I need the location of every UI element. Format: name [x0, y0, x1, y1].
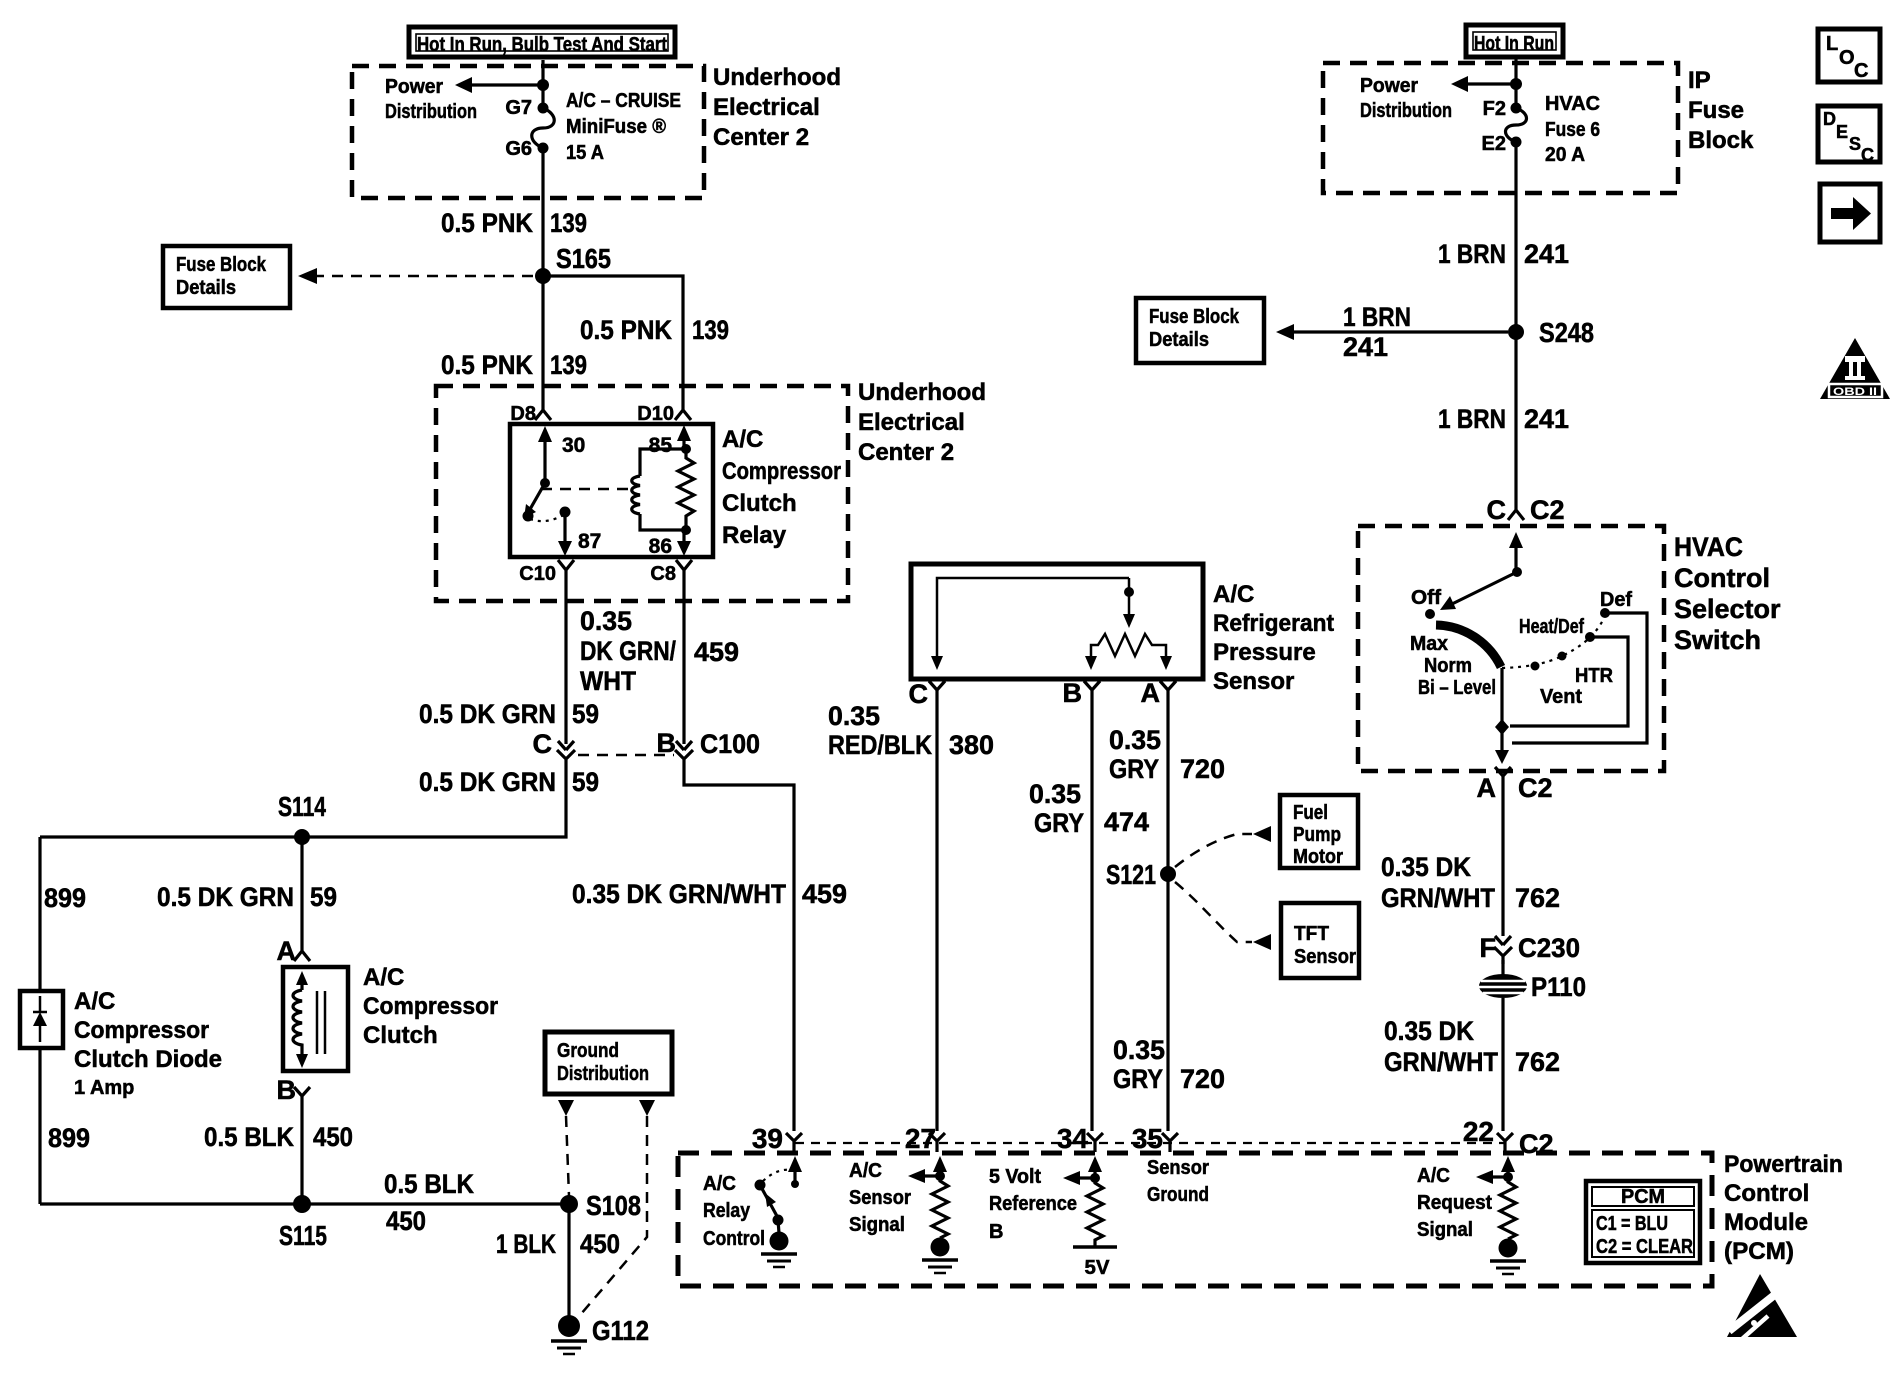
connector F of C230	[1480, 933, 1581, 964]
svg-text:Distribution: Distribution	[385, 101, 477, 123]
svg-text:C2: C2	[1518, 773, 1553, 803]
svg-text:Signal: Signal	[849, 1214, 905, 1236]
forward arrow icon box	[1820, 184, 1880, 242]
svg-text:Center 2: Center 2	[713, 124, 809, 151]
Ground Distribution box	[545, 1032, 672, 1094]
svg-text:Compressor: Compressor	[722, 458, 841, 485]
dashed reference arrow S165 to Fuse Block Details	[315, 275, 533, 278]
svg-text:P110: P110	[1531, 972, 1586, 1002]
svg-text:C10: C10	[519, 563, 556, 585]
svg-text:0.5 DK GRN: 0.5 DK GRN	[419, 699, 556, 729]
svg-text:Ground: Ground	[1147, 1184, 1209, 1206]
svg-text:GRY: GRY	[1034, 808, 1084, 838]
svg-text:B: B	[657, 728, 677, 758]
PCM connector legend box	[1586, 1181, 1700, 1263]
IP Fuse Block dashed box	[1323, 63, 1678, 193]
svg-text:85: 85	[649, 434, 673, 457]
svg-text:A/C: A/C	[363, 964, 404, 991]
svg-text:Sensor: Sensor	[1294, 946, 1356, 968]
value label 1 BLK 450	[496, 1229, 620, 1259]
svg-text:(PCM): (PCM)	[1724, 1238, 1794, 1265]
fuse: HVAC Fuse 6 20A, terminals F2/E2	[1482, 93, 1600, 166]
value label 0.5 DK GRN 59 (below C100)	[419, 767, 599, 797]
value label 0.35 DK GRN/WHT 762 (upper)	[1381, 852, 1560, 913]
svg-text:Fuse Block: Fuse Block	[176, 254, 267, 276]
svg-text:C2 = CLEAR: C2 = CLEAR	[1596, 1236, 1693, 1258]
svg-text:Ground: Ground	[557, 1040, 619, 1062]
svg-text:A/C: A/C	[849, 1160, 882, 1182]
svg-text:0.35: 0.35	[1029, 779, 1081, 809]
svg-text:1 BRN: 1 BRN	[1343, 302, 1411, 332]
svg-text:Fuel: Fuel	[1293, 802, 1328, 824]
svg-text:G112: G112	[592, 1315, 649, 1346]
svg-text:O: O	[1839, 47, 1855, 69]
svg-text:Clutch: Clutch	[722, 490, 797, 517]
switch output wire with junctions	[1495, 668, 1509, 764]
A/C relay control switch	[755, 1170, 792, 1233]
svg-text:RED/BLK: RED/BLK	[828, 730, 932, 760]
svg-text:Heat/Def: Heat/Def	[1519, 616, 1584, 638]
relay pin 87 arm	[558, 512, 601, 556]
pin 39 internal arrow	[788, 1156, 802, 1188]
svg-text:Hot In Run, Bulb Test And Star: Hot In Run, Bulb Test And Start	[417, 34, 667, 56]
svg-text:450: 450	[313, 1122, 353, 1152]
PCM dashed box	[678, 1153, 1712, 1286]
HTR position dot	[1558, 652, 1567, 661]
svg-text:474: 474	[1104, 807, 1149, 837]
connector pin C of sensor	[909, 679, 946, 709]
svg-text:A/C: A/C	[1213, 581, 1254, 608]
svg-text:450: 450	[386, 1206, 426, 1236]
label 5 Volt Reference B	[989, 1166, 1077, 1243]
wire: C8 down to C100 pin B	[682, 582, 685, 744]
value label 0.35 DK GRN/WHT 459	[580, 606, 739, 696]
Vent position dot	[1531, 662, 1540, 671]
pin 27 internal arrows	[908, 1156, 947, 1183]
wire: sensor C to PCM pin 27	[935, 698, 938, 1131]
connector C10	[519, 560, 574, 585]
connector D10	[637, 403, 691, 425]
svg-text:HTR: HTR	[1575, 665, 1614, 687]
svg-text:Underhood: Underhood	[858, 379, 986, 406]
dashed wire to G112	[581, 1116, 647, 1314]
value label 0.5 BLK 450 (run)	[384, 1169, 474, 1236]
svg-text:0.5 BLK: 0.5 BLK	[204, 1122, 294, 1152]
connector C100 pin B	[657, 728, 761, 767]
svg-text:Control: Control	[1674, 563, 1770, 593]
wire: hot feed into fuse	[541, 60, 544, 108]
svg-text:Reference: Reference	[989, 1193, 1077, 1215]
node S248	[1508, 324, 1524, 340]
svg-text:22: 22	[1463, 1116, 1494, 1147]
wire: sensor A to PCM pin 35	[1166, 698, 1169, 1131]
label Underhood Electrical Center 2	[713, 64, 841, 151]
label A/C Refrigerant Pressure Sensor	[1213, 581, 1334, 695]
svg-text:Fuse Block: Fuse Block	[1149, 306, 1240, 328]
sensor resistor element	[1085, 634, 1172, 670]
svg-text:Off: Off	[1411, 587, 1441, 609]
ground G112	[551, 1315, 649, 1354]
svg-text:C2: C2	[1530, 495, 1565, 525]
svg-text:C230: C230	[1518, 933, 1580, 963]
resistor to 5V at pin 34	[1087, 1178, 1103, 1247]
value label 0.5 PNK 139	[441, 208, 587, 238]
svg-text:A/C: A/C	[1417, 1165, 1450, 1187]
svg-text:D8: D8	[510, 403, 536, 425]
svg-text:Electrical: Electrical	[858, 409, 965, 436]
svg-text:A: A	[277, 936, 297, 966]
svg-text:241: 241	[1343, 332, 1388, 362]
diode symbol	[33, 996, 47, 1042]
label Powertrain Control Module (PCM)	[1724, 1151, 1843, 1265]
value label 0.35 GRY 720 (pin A lower)	[1113, 1035, 1225, 1094]
svg-text:C: C	[909, 679, 929, 709]
node S115	[293, 1195, 311, 1213]
svg-text:G7: G7	[505, 97, 532, 119]
relay pin 30 arm	[538, 426, 585, 483]
svg-text:S165: S165	[556, 243, 611, 274]
svg-text:0.5 DK GRN: 0.5 DK GRN	[157, 882, 294, 912]
ground at pin 22	[1490, 1239, 1526, 1275]
wire: sensor B to PCM pin 34	[1090, 698, 1093, 1131]
svg-text:459: 459	[694, 637, 739, 667]
svg-text:OBD II: OBD II	[1833, 386, 1877, 398]
wire: hot feed into HVAC fuse	[1514, 58, 1517, 108]
value label 0.35 DK GRN/WHT 762 (lower)	[1384, 1016, 1560, 1077]
svg-text:459: 459	[802, 879, 847, 909]
pull resistor at pin 27	[932, 1176, 948, 1238]
relay coil with parallel resistor	[632, 444, 694, 535]
svg-text:S114: S114	[278, 791, 326, 822]
svg-text:Distribution: Distribution	[1360, 100, 1452, 122]
connector D8	[510, 403, 551, 425]
pin 22 internal arrows	[1476, 1156, 1515, 1184]
svg-text:720: 720	[1180, 754, 1225, 784]
relay switch arm	[523, 478, 571, 522]
sensor wiper arrow	[1123, 578, 1135, 628]
svg-text:241: 241	[1524, 404, 1569, 434]
label Underhood Electrical Center 2	[858, 379, 986, 466]
svg-text:Relay: Relay	[703, 1200, 751, 1222]
svg-text:C100: C100	[700, 729, 760, 759]
svg-text:L: L	[1826, 33, 1838, 55]
svg-text:0.35 DK: 0.35 DK	[1384, 1016, 1474, 1046]
node: power distribution tap	[537, 79, 549, 91]
switch feed arrow	[1509, 532, 1523, 577]
value label 0.5 DK GRN 59	[157, 882, 337, 912]
svg-text:139: 139	[692, 315, 729, 345]
svg-text:Compressor: Compressor	[363, 993, 498, 1020]
svg-text:B: B	[277, 1075, 297, 1105]
wire: S108 down to G112	[567, 1204, 570, 1316]
connector pin 27	[905, 1123, 945, 1154]
value label 1 BRN 241	[1438, 404, 1569, 434]
OBD II triangle symbol	[1820, 338, 1890, 399]
svg-text:59: 59	[310, 882, 337, 912]
svg-text:Fuse 6: Fuse 6	[1545, 119, 1600, 141]
sensor internal supply line	[937, 578, 1129, 660]
grommet P110	[1479, 960, 1586, 1002]
svg-text:59: 59	[572, 699, 599, 729]
svg-text:A: A	[1477, 773, 1497, 803]
svg-text:Power: Power	[385, 76, 443, 98]
wire: S248 down to HVAC selector C2 pin C	[1514, 332, 1517, 506]
svg-text:0.5 PNK: 0.5 PNK	[441, 208, 533, 238]
svg-text:D10: D10	[637, 403, 674, 425]
svg-text:0.35: 0.35	[580, 606, 632, 636]
connector C8	[650, 560, 692, 585]
svg-text:Details: Details	[176, 277, 236, 299]
svg-text:A/C: A/C	[722, 426, 763, 453]
ground distribution arrow left	[558, 1100, 574, 1116]
svg-text:1 BRN: 1 BRN	[1438, 239, 1506, 269]
label IP Fuse Block	[1688, 67, 1754, 154]
svg-text:Sensor: Sensor	[1147, 1157, 1209, 1179]
svg-text:Norm: Norm	[1424, 655, 1472, 677]
svg-text:C2: C2	[1519, 1129, 1554, 1159]
svg-text:C: C	[1854, 60, 1868, 82]
svg-text:S: S	[1849, 134, 1861, 154]
connector A of C2 (HVAC output)	[1477, 767, 1553, 803]
svg-text:G6: G6	[505, 138, 532, 160]
Heat/Def position dot	[1585, 632, 1595, 642]
svg-text:S121: S121	[1106, 859, 1156, 890]
DESC icon box	[1818, 106, 1880, 165]
dashed reference to Fuel Pump Motor	[1175, 834, 1252, 867]
svg-text:Selector: Selector	[1674, 594, 1781, 624]
svg-text:C1 = BLU: C1 = BLU	[1596, 1213, 1668, 1235]
value label 0.35 GRY 720 (pin A upper)	[1109, 725, 1225, 784]
svg-text:20 A: 20 A	[1545, 144, 1585, 166]
relay actuation dashed link	[541, 488, 633, 491]
svg-text:0.35 DK GRN/WHT: 0.35 DK GRN/WHT	[572, 879, 786, 909]
wire: P110 down to PCM pin 22	[1501, 998, 1504, 1131]
svg-text:86: 86	[649, 535, 672, 558]
svg-text:E2: E2	[1482, 133, 1506, 155]
svg-text:0.5 PNK: 0.5 PNK	[580, 315, 672, 345]
connector C2 thin dashed rail	[795, 1142, 1505, 1144]
svg-text:S108: S108	[586, 1190, 641, 1221]
svg-text:1 Amp: 1 Amp	[74, 1077, 134, 1099]
label A/C Compressor Clutch Diode 1 Amp	[74, 988, 222, 1099]
svg-text:GRY: GRY	[1109, 754, 1159, 784]
wire: diode loop left side	[38, 837, 41, 1204]
ground at pin 27	[922, 1238, 958, 1274]
svg-text:720: 720	[1180, 1064, 1225, 1094]
dashed positions arc	[1502, 613, 1605, 668]
svg-text:Compressor: Compressor	[74, 1017, 209, 1044]
value label 0.5 DK GRN 59 (above C100)	[419, 699, 599, 729]
Fuse Block Details box (right)	[1136, 298, 1264, 363]
svg-text:Sensor: Sensor	[1213, 668, 1294, 695]
svg-text:Clutch: Clutch	[363, 1022, 438, 1049]
svg-text:0.5 BLK: 0.5 BLK	[384, 1169, 474, 1199]
wire arrow S248 to Fuse Block Details	[1292, 330, 1508, 333]
svg-text:Def: Def	[1600, 589, 1632, 611]
pin 34 internal arrows	[1063, 1156, 1102, 1185]
svg-text:E: E	[1836, 122, 1848, 142]
svg-text:762: 762	[1515, 1047, 1560, 1077]
label A/C Request Signal	[1417, 1165, 1492, 1241]
svg-text:PCM: PCM	[1621, 1186, 1665, 1208]
svg-text:0.35 DK: 0.35 DK	[1381, 852, 1471, 882]
svg-text:762: 762	[1515, 883, 1560, 913]
value label 0.35 GRY 474 (pin B)	[1029, 779, 1149, 838]
label A/C Compressor Clutch	[363, 964, 498, 1049]
svg-text:Switch: Switch	[1674, 625, 1761, 655]
wire: Def contact loop	[1512, 613, 1647, 743]
thick contact arc Max-Norm-Bi-Level	[1436, 625, 1501, 667]
value label 0.5 BLK 450	[204, 1122, 353, 1152]
value label 0.5 PNK 139 (left branch)	[441, 350, 587, 380]
label box "Hot In Run"	[1466, 25, 1563, 57]
svg-text:Sensor: Sensor	[849, 1187, 911, 1209]
svg-text:B: B	[989, 1221, 1003, 1243]
wire: HVAC A down to C230	[1501, 784, 1504, 936]
svg-text:5V: 5V	[1085, 1257, 1111, 1279]
svg-text:GRN/WHT: GRN/WHT	[1381, 883, 1495, 913]
svg-text:380: 380	[949, 730, 994, 760]
svg-text:27: 27	[905, 1123, 936, 1154]
wire: S165 down to D8	[541, 276, 544, 406]
connector C of C2 (HVAC input)	[1487, 495, 1565, 525]
relay pin 85 arm	[649, 425, 691, 457]
svg-text:Vent: Vent	[1540, 686, 1582, 708]
Fuel Pump Motor box	[1280, 795, 1358, 868]
connector C100 halves dashed link	[578, 754, 674, 757]
svg-text:Pressure: Pressure	[1213, 639, 1316, 666]
wire: Heat/Def contact loop	[1510, 637, 1628, 726]
ground distribution arrow right	[639, 1100, 655, 1116]
svg-text:87: 87	[578, 530, 601, 553]
svg-text:Max: Max	[1410, 633, 1448, 655]
switch wiper arm to Off	[1440, 572, 1517, 610]
Underhood Electrical Center 2 dashed box (relay)	[436, 386, 848, 601]
relay K: A/C Compressor Clutch Relay box	[510, 424, 713, 557]
svg-text:MiniFuse ®: MiniFuse ®	[566, 116, 666, 138]
value label 0.35 DK GRN/WHT 459 (long run)	[572, 879, 847, 909]
svg-text:Request: Request	[1417, 1192, 1492, 1214]
svg-text:A/C: A/C	[74, 988, 115, 1015]
TFT Sensor box	[1281, 903, 1359, 978]
5V supply rail	[1073, 1247, 1117, 1279]
svg-text:Electrical: Electrical	[713, 94, 820, 121]
svg-text:Hot In Run: Hot In Run	[1474, 33, 1554, 55]
connector C100 pin C	[533, 729, 576, 767]
connector pin 34	[1057, 1123, 1103, 1154]
A/C Compressor Clutch box	[283, 967, 348, 1071]
svg-text:Distribution: Distribution	[557, 1063, 649, 1085]
svg-text:Power: Power	[1360, 75, 1418, 97]
svg-text:S248: S248	[1539, 317, 1594, 348]
pull resistor at pin 22	[1500, 1177, 1516, 1239]
wire: fuse output down to S248	[1514, 142, 1517, 332]
relay pin 86 arm	[649, 530, 691, 558]
svg-text:0.5 PNK: 0.5 PNK	[441, 350, 533, 380]
label A/C Relay Control	[703, 1173, 765, 1250]
svg-text:34: 34	[1057, 1123, 1089, 1154]
A/C Compressor Clutch Diode box	[20, 991, 63, 1048]
svg-text:Pump: Pump	[1293, 824, 1341, 846]
svg-text:GRN/WHT: GRN/WHT	[1384, 1047, 1498, 1077]
svg-text:Underhood: Underhood	[713, 64, 841, 91]
svg-text:HVAC: HVAC	[1545, 93, 1600, 115]
svg-text:0.35: 0.35	[1109, 725, 1161, 755]
svg-text:Details: Details	[1149, 329, 1209, 351]
value label 1 BRN 241	[1438, 239, 1569, 269]
connector pin A of clutch	[277, 936, 311, 966]
svg-text:1 BRN: 1 BRN	[1438, 404, 1506, 434]
label A/C Sensor Signal	[849, 1160, 911, 1236]
svg-text:Refrigerant: Refrigerant	[1213, 610, 1334, 637]
svg-text:GRY: GRY	[1113, 1064, 1163, 1094]
svg-text:0.5 DK GRN: 0.5 DK GRN	[419, 767, 556, 797]
ground at pin 39 driver	[761, 1232, 797, 1268]
node: power distribution tap	[1510, 78, 1522, 90]
svg-text:A/C: A/C	[703, 1173, 736, 1195]
dashed reference to TFT Sensor	[1175, 882, 1252, 942]
svg-text:15 A: 15 A	[566, 142, 604, 164]
A/C Refrigerant Pressure Sensor box	[911, 564, 1203, 679]
svg-text:C: C	[1487, 495, 1507, 525]
svg-text:HVAC: HVAC	[1674, 532, 1743, 562]
Def position dot	[1600, 608, 1610, 618]
wire: C100 B jog right and down to PCM pin 39	[684, 767, 794, 1131]
connector pin B of sensor	[1063, 678, 1101, 708]
svg-text:WHT: WHT	[580, 666, 636, 696]
svg-text:241: 241	[1524, 239, 1569, 269]
wire: fuse output down to S165	[541, 148, 544, 276]
node S108	[560, 1195, 578, 1213]
svg-text:Block: Block	[1688, 127, 1754, 154]
svg-text:Relay: Relay	[722, 522, 787, 549]
wire: ground run S115 to S108	[40, 1202, 569, 1205]
wire: clutch B down to S115	[300, 1104, 303, 1204]
svg-text:F2: F2	[1483, 98, 1506, 120]
dashed wire to S108	[566, 1116, 569, 1196]
value label 0.35 RED/BLK 380	[828, 701, 994, 760]
wire: S165 right branch to D10	[543, 276, 683, 406]
svg-text:D: D	[1823, 109, 1836, 129]
svg-text:A: A	[1141, 678, 1161, 708]
svg-text:Signal: Signal	[1417, 1219, 1473, 1241]
svg-text:899: 899	[44, 883, 86, 913]
svg-text:Clutch Diode: Clutch Diode	[74, 1046, 222, 1073]
svg-text:35: 35	[1132, 1123, 1163, 1154]
svg-text:0.35: 0.35	[1113, 1035, 1165, 1065]
svg-text:TFT: TFT	[1294, 923, 1329, 945]
svg-text:DK GRN/: DK GRN/	[580, 636, 676, 666]
svg-text:Fuse: Fuse	[1688, 97, 1744, 124]
svg-text:139: 139	[550, 350, 587, 380]
connector pin A of sensor	[1141, 678, 1177, 708]
wire arrow to Power Distribution	[470, 83, 543, 86]
svg-text:Control: Control	[1724, 1180, 1809, 1207]
fuse F: A/C-CRUISE MiniFuse 15A, terminals G7/G6	[505, 90, 681, 164]
Off position dot	[1425, 609, 1435, 619]
clutch coil internals	[293, 971, 325, 1068]
label Sensor Ground	[1147, 1157, 1209, 1206]
svg-text:S115: S115	[279, 1220, 327, 1251]
svg-text:Control: Control	[703, 1228, 765, 1250]
connector pin 22	[1463, 1116, 1554, 1159]
svg-text:Module: Module	[1724, 1209, 1808, 1236]
wire: S114 down to clutch pin A	[300, 837, 303, 947]
svg-text:0.35: 0.35	[828, 701, 880, 731]
svg-text:B: B	[1063, 678, 1083, 708]
svg-text:A/C – CRUISE: A/C – CRUISE	[566, 90, 681, 112]
connector pin 35	[1132, 1123, 1178, 1154]
